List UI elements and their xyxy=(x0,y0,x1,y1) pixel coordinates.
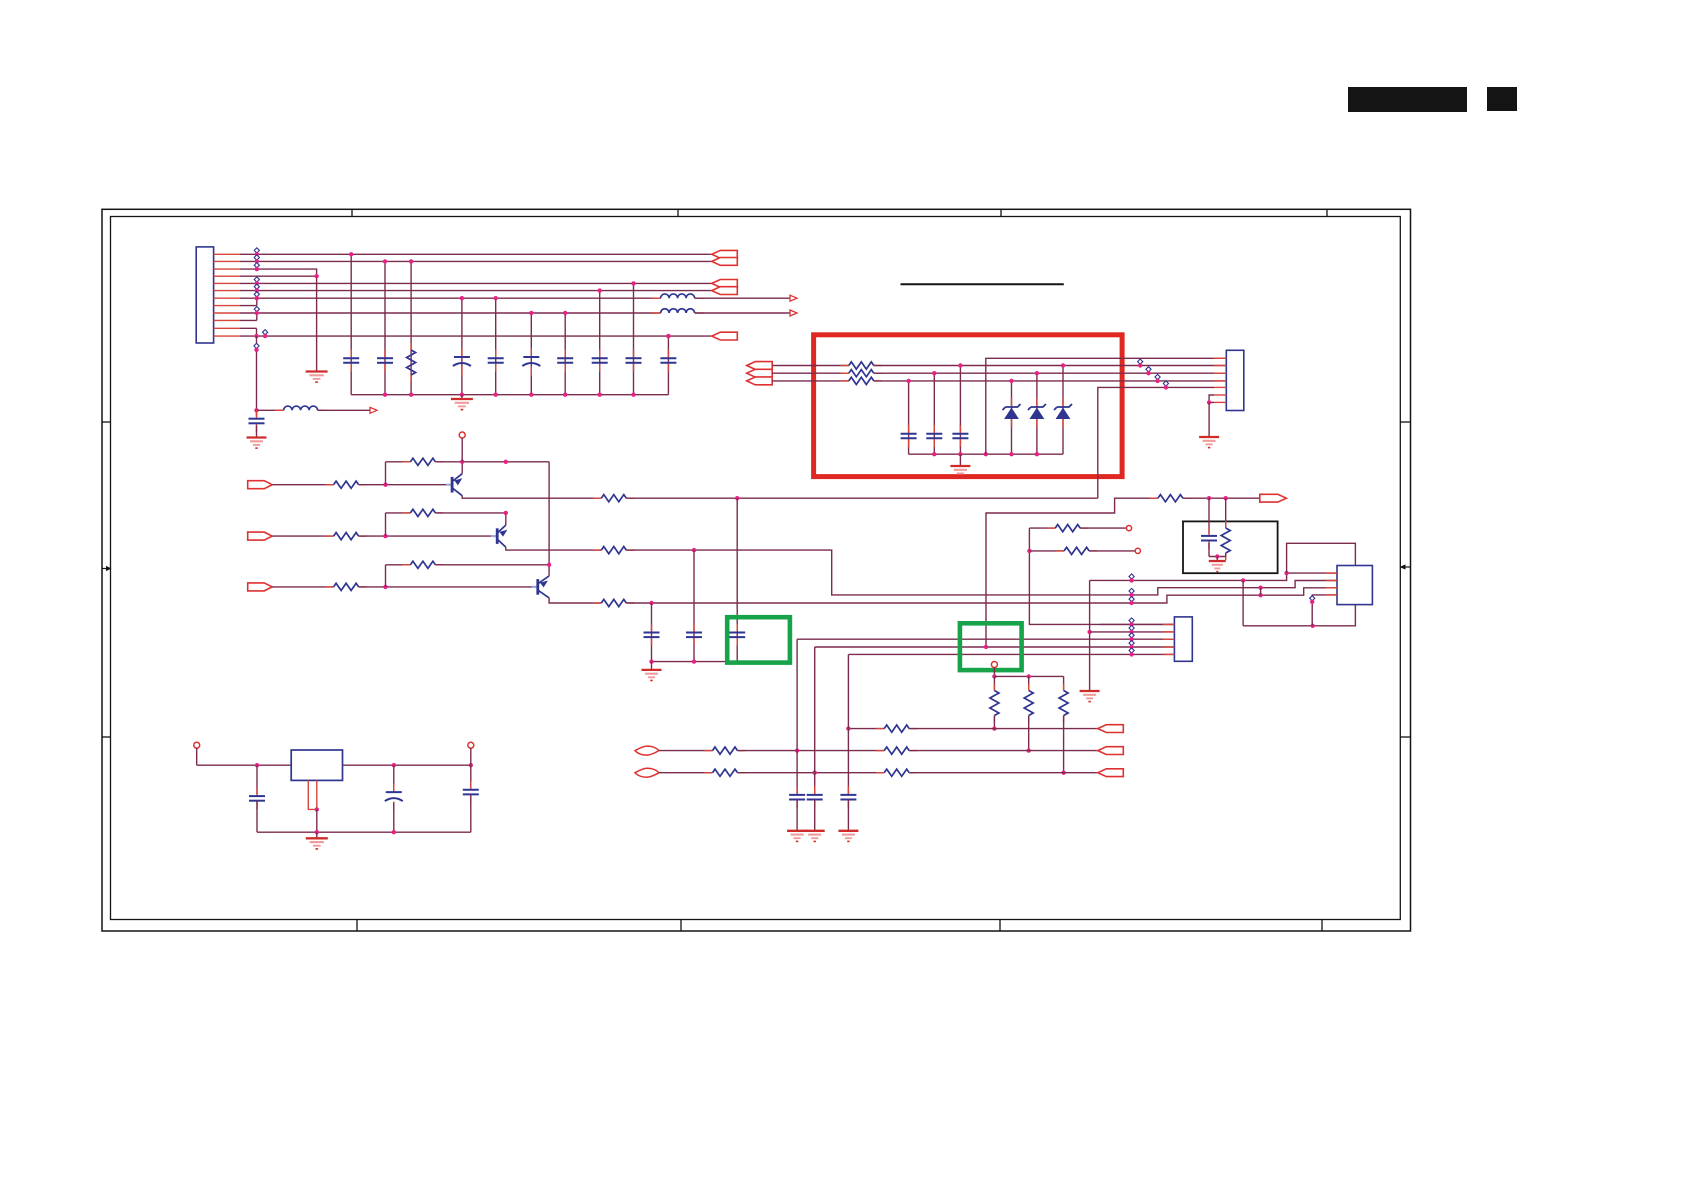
wire feedback riser Q2 xyxy=(385,513,387,536)
node IN2 riser tap xyxy=(813,771,817,775)
net glyph J2 row1 xyxy=(1138,359,1143,364)
wire red box row2 to connector J2 xyxy=(874,372,1227,374)
wire pin8 to L6 vertical xyxy=(256,298,258,305)
node filter junction xyxy=(254,408,258,412)
node snubber bus 1 xyxy=(649,659,653,663)
wire drop for C7 xyxy=(599,291,601,395)
connector J2 pin 2 stub xyxy=(1214,365,1226,367)
ground GND7 in black box xyxy=(1209,560,1226,562)
node red box bus junction xyxy=(1035,452,1039,456)
connector J1 pin 9 stub xyxy=(214,312,240,314)
wire net L8 from J1 pin12 to flag xyxy=(240,335,712,337)
capacitor C5 (polarized) xyxy=(530,349,532,358)
wire J3 pin5 line xyxy=(848,653,1174,655)
ground GND9 xyxy=(787,830,807,832)
wire flag G into red box xyxy=(772,372,849,374)
node R1 top junction xyxy=(409,259,413,263)
capacitor C12 xyxy=(693,624,695,633)
net glyph J2 row2 xyxy=(1146,367,1151,372)
resistor R11 xyxy=(841,365,849,367)
input flag F xyxy=(747,362,773,370)
capacitor C22 (polarized) xyxy=(393,784,395,793)
wire Q3 output line xyxy=(626,588,1337,603)
connector J2 pin 7 stub xyxy=(1214,401,1226,403)
node Q3 out tap xyxy=(649,601,653,605)
node VOUT junction xyxy=(469,763,473,767)
wire capacitor bus (top section) xyxy=(351,394,668,396)
small arrow filter out xyxy=(370,407,377,413)
wire drop R15 xyxy=(1225,498,1227,528)
border zone tick right 1 xyxy=(1401,421,1411,423)
IC U2 pin stub xyxy=(1326,580,1337,582)
wire RC ground stem xyxy=(1216,557,1218,562)
resistor R20 xyxy=(1063,684,1065,691)
node snubber bus 2 xyxy=(692,659,696,663)
capacitor C17 xyxy=(1208,527,1210,536)
connector J3 body xyxy=(1174,617,1192,661)
connector J1 pin 11 stub xyxy=(214,327,240,329)
node pin3/pin4 junction xyxy=(314,274,318,278)
net name node glyph row 269.1 xyxy=(254,263,259,268)
wire red box cap bus xyxy=(909,453,1063,455)
wire drop for C2 xyxy=(384,261,386,394)
capacitor C21 xyxy=(256,787,258,796)
node bus junction xyxy=(383,393,387,397)
connector J2 body xyxy=(1226,350,1244,410)
node R18 bottom xyxy=(992,726,996,730)
off-page flag J xyxy=(1098,725,1124,733)
connector J1 pin 10 stub xyxy=(214,319,240,321)
resistor R13 xyxy=(841,380,849,382)
wire snubber bus xyxy=(652,661,738,663)
wire AU2 to flag xyxy=(909,750,1098,752)
wire top lead R20 xyxy=(1063,676,1065,690)
wire net L1 from J1 pin1 to flag xyxy=(240,253,712,255)
wire Rb lead xyxy=(1029,550,1064,552)
title tab black square small xyxy=(1487,87,1517,111)
resistor R3 xyxy=(326,535,334,537)
wire Ra lead xyxy=(1029,527,1055,529)
node red box bus junction xyxy=(932,452,936,456)
resistor R1 xyxy=(410,343,412,350)
wire C23 to rail xyxy=(470,794,472,832)
resistor R14 xyxy=(1150,497,1158,499)
wire feedback to emitter rail Q3 xyxy=(435,564,549,566)
border zone tick top 3 xyxy=(1000,209,1002,216)
wire R15 bottom xyxy=(1225,553,1227,557)
node C1 top junction xyxy=(349,252,353,256)
wire Q1 output line xyxy=(626,497,1098,499)
node input cap tap xyxy=(255,763,259,767)
resistor R22 xyxy=(705,750,713,752)
node rail 2 xyxy=(392,830,396,834)
wire line AU1 (row 728.6) xyxy=(848,728,884,730)
wire drop for C8 xyxy=(633,283,635,394)
wire R16 to test point xyxy=(1080,527,1126,529)
net glyph J3 pin2 xyxy=(1129,625,1134,630)
wire input to resistor R3 xyxy=(272,535,333,537)
node bus junction xyxy=(598,393,602,397)
ground GND5 red box xyxy=(959,454,961,466)
wire L6 inductor to arrow xyxy=(695,297,790,299)
wire drop D1 xyxy=(1011,381,1013,454)
node C5 top junction xyxy=(529,311,533,315)
node C6 top junction xyxy=(563,311,567,315)
wire VIN to regulator xyxy=(197,764,292,766)
wire feedback riser Q3 xyxy=(385,565,387,587)
node SDA drop junction xyxy=(1241,578,1245,582)
resistor R21 xyxy=(876,728,884,730)
green highlight box 1 xyxy=(727,617,790,662)
input flag G xyxy=(747,369,773,377)
wire collector drop Q1 xyxy=(462,496,601,499)
wire net L5 from J1 pin6 to flag xyxy=(240,290,712,292)
capacitor C8 xyxy=(633,350,635,359)
wire drop for R1 xyxy=(410,261,412,394)
border zone tick left 1 xyxy=(102,421,111,423)
terminal circle VOUT xyxy=(468,742,474,748)
wire R17 to test point xyxy=(1089,550,1135,552)
net glyph line3 xyxy=(1129,597,1134,602)
wire feedback top Q1 xyxy=(386,461,411,463)
wire collector drop Q3 xyxy=(549,598,601,603)
connector J1 pin 1 stub xyxy=(214,253,240,255)
connector J2 pin 5 stub xyxy=(1214,386,1226,388)
connector J3 pin 5 stub xyxy=(1163,653,1174,655)
IC U2 body xyxy=(1337,566,1372,605)
border zone tick left 2 xyxy=(102,736,111,738)
zener diode D2 xyxy=(1036,398,1038,407)
wire pin11 to L8 vertical xyxy=(256,328,258,336)
wire drop for C6 xyxy=(564,313,566,395)
wire collector drop Q2 xyxy=(506,547,602,550)
wire drop C13 xyxy=(736,498,738,661)
off-page flag B (L2) xyxy=(712,258,738,266)
red highlight box xyxy=(814,335,1123,477)
wire riser 3 (x=848) xyxy=(847,654,849,794)
wire flag F into red box xyxy=(772,365,849,367)
off-page flag L xyxy=(1098,769,1124,777)
wire feedback riser Q1 xyxy=(385,462,387,485)
capacitor C10 xyxy=(256,410,258,416)
wire AU3 to flag xyxy=(909,772,1098,774)
wire IC top loop xyxy=(1287,543,1356,573)
test point circle TP2 xyxy=(1135,548,1140,553)
wire net L6 from J1 pin7 to inductor xyxy=(240,297,661,299)
resistor R23 xyxy=(876,750,884,752)
resistor R9 (Q2 out) xyxy=(593,549,601,551)
node L8 tap for C9 xyxy=(666,334,670,338)
ground GND12 regulator xyxy=(316,832,318,838)
border zone tick top 1 xyxy=(351,209,353,216)
input flag for Q1 xyxy=(248,481,273,489)
inductor L1 on net L6 xyxy=(652,297,661,299)
node divider bus 2 xyxy=(1027,674,1031,678)
wire resistor R3 to base of Q2 xyxy=(359,535,492,537)
ground GND8 below riser xyxy=(1080,690,1100,692)
node Rb junction xyxy=(1027,549,1031,553)
zener diode D3 xyxy=(1062,398,1064,407)
node C4 top junction xyxy=(494,296,498,300)
node RC ground junction xyxy=(1215,554,1219,558)
ground GND3 below C10 xyxy=(247,436,267,438)
wire emitter rail across xyxy=(462,461,549,463)
wire C20 to ground xyxy=(847,800,849,831)
wire J2 pin7 to ground xyxy=(1209,401,1214,403)
wire IC bottom return xyxy=(1243,605,1355,626)
wire AU1 to flag xyxy=(909,728,1098,730)
net glyph J3 pin1 xyxy=(1129,618,1134,623)
wire J1 pin10 tie-up xyxy=(240,319,257,321)
capacitor C2 xyxy=(384,350,386,359)
heading underline xyxy=(901,283,1064,285)
node bus junction xyxy=(460,393,464,397)
net name node glyph row 261.4 xyxy=(254,255,259,260)
node bus junction xyxy=(529,393,533,397)
node R14 tap R15 xyxy=(1224,496,1228,500)
node AU1 origin xyxy=(846,726,850,730)
node D3 top xyxy=(1061,363,1065,367)
wire IC pin4 drop xyxy=(1312,595,1337,626)
IC U2 pin stub xyxy=(1326,587,1337,589)
node C2 top junction xyxy=(383,259,387,263)
resistor R4 xyxy=(326,586,334,588)
wire C18 to ground xyxy=(796,800,798,831)
node red box bus junction xyxy=(958,452,962,456)
wire terminal to emitter rail xyxy=(461,438,463,462)
wire J3 pin3 line xyxy=(797,638,1174,640)
wire feedback top Q2 xyxy=(386,512,411,514)
wire emitter riser Q1 xyxy=(461,462,463,474)
node bus junction xyxy=(563,393,567,397)
node C3 top junction xyxy=(460,296,464,300)
regulator U1 body xyxy=(291,750,342,780)
node emitter rail Q1 xyxy=(460,460,464,464)
connector J2 pin 6 stub xyxy=(1214,394,1226,396)
wire bottom lead R20 xyxy=(1063,716,1065,773)
node C15 top xyxy=(932,371,936,375)
wire bottom lead R19 xyxy=(1028,716,1030,751)
wire net L2 from J1 pin2 to flag xyxy=(240,260,712,262)
node R19 bottom xyxy=(1027,748,1031,752)
node emitter rail Q2 xyxy=(504,460,508,464)
title tab black bar large xyxy=(1348,87,1467,112)
border zone tick right 2 xyxy=(1401,736,1411,738)
connector J1 pin 2 stub xyxy=(214,260,240,262)
capacitor C19 xyxy=(814,786,816,795)
wire drop C11 xyxy=(651,603,653,662)
input flag for Q3 xyxy=(248,583,273,591)
node C14 top xyxy=(906,379,910,383)
connector J1 pin 4 stub xyxy=(214,275,240,277)
wire C21 to rail xyxy=(256,801,258,833)
connector J2 pin 4 stub xyxy=(1214,380,1226,382)
wire net L7 from J1 pin9 to inductor xyxy=(240,312,661,314)
ground GND10 xyxy=(805,830,825,832)
wire J3 pin1 line xyxy=(1100,623,1174,625)
node Q1 out tap xyxy=(735,496,739,500)
capacitor C1 xyxy=(350,350,352,359)
inductor L3 xyxy=(275,409,284,411)
resistor R8 (Q1 out) xyxy=(593,497,601,499)
wire riser Ra/Rb xyxy=(1029,528,1174,624)
border centre arrow left xyxy=(102,568,109,570)
transistor Q1 xyxy=(446,484,452,486)
net glyph J3 pin5 xyxy=(1129,648,1134,653)
ground GND1 below pin4 xyxy=(306,370,328,372)
wire C17 bottom xyxy=(1208,543,1210,557)
IC U2 pin stub xyxy=(1326,594,1337,596)
wire riser 2 (x=815) xyxy=(814,647,816,795)
off-page flag I (right) xyxy=(1260,494,1287,502)
wire feedback to emitter rail Q1 xyxy=(435,461,462,463)
off-page flag C (L4) xyxy=(712,280,738,288)
wire VIN down xyxy=(196,748,198,765)
off-page flag E (L8) xyxy=(712,332,738,340)
net glyph SDA xyxy=(1129,574,1134,579)
resistor R5 xyxy=(402,461,410,463)
wire drop for C4 xyxy=(495,298,497,395)
connector J3 pin 1 stub xyxy=(1163,623,1174,625)
wire IN2 line xyxy=(738,772,885,774)
node C9 top junction xyxy=(666,334,670,338)
wire drop D3 xyxy=(1062,366,1064,455)
wire emitter rail drop to Q3 xyxy=(548,462,550,565)
wire feedback to emitter rail Q2 xyxy=(435,512,505,514)
terminal circle VIN xyxy=(194,742,200,748)
node divider bus 1 xyxy=(992,674,996,678)
wire red box row3 to connector J2 xyxy=(874,380,1227,382)
capacitor C6 xyxy=(564,350,566,359)
node output cap tap xyxy=(392,763,396,767)
wire resistor R2 to base of Q1 xyxy=(359,484,447,486)
connector J3 pin 2 stub xyxy=(1163,631,1174,633)
wire drop for C3 xyxy=(461,298,463,395)
connector J1 pin 7 stub xyxy=(214,297,240,299)
net name node glyph below J1 xyxy=(254,343,259,348)
connector J3 pin 4 stub xyxy=(1163,646,1174,648)
wire C19 to ground xyxy=(814,800,816,831)
wire top lead R19 xyxy=(1028,676,1030,690)
node bus junction xyxy=(494,393,498,397)
node base junction Q3 xyxy=(383,585,387,589)
net name node glyph row 298.2 xyxy=(254,292,259,297)
wire ground drop from pin4 node xyxy=(316,276,318,371)
sheet inner border frame xyxy=(111,217,1401,920)
wire input to resistor R4 xyxy=(272,586,333,588)
wire regulator ground drop xyxy=(316,809,318,832)
net name node glyph row 313.0 xyxy=(254,307,259,312)
node IN1 riser tap xyxy=(795,748,799,752)
node Q2 out tap xyxy=(692,548,696,552)
capacitor C16 xyxy=(959,425,961,434)
net name node glyph row 254.3 xyxy=(254,248,259,253)
ground GND11 xyxy=(838,830,858,832)
off-page flag K xyxy=(1098,747,1124,755)
border zone tick top 2 xyxy=(677,209,679,216)
wire Q2 output line xyxy=(626,550,1337,595)
wire riser 1 (x=797) xyxy=(796,639,798,795)
resistor R2 xyxy=(326,484,334,486)
capacitor C14 xyxy=(908,425,910,434)
node red box bus junction xyxy=(984,452,988,456)
wire drop C16 xyxy=(959,366,961,455)
wire J1 pin3 jog xyxy=(240,269,317,276)
resistor R24 xyxy=(705,772,713,774)
wire drop for C9 xyxy=(667,336,669,395)
node R20 bottom xyxy=(1061,771,1065,775)
terminal circle above Q1 xyxy=(459,432,465,438)
wire IN1 line xyxy=(738,750,885,752)
node IC bottom tap xyxy=(1311,624,1315,628)
capacitor C23 xyxy=(470,781,472,790)
wire C22 to rail xyxy=(393,803,395,833)
resistor R7 xyxy=(402,564,410,566)
regulator ground pins xyxy=(308,780,317,809)
net glyph IC pin4 xyxy=(1310,596,1315,601)
node D1 top xyxy=(1009,379,1013,383)
node green box riser landing xyxy=(984,645,988,649)
wire regulator output xyxy=(343,764,471,766)
border zone tick bottom 4 xyxy=(1321,920,1323,931)
net glyph J2 row4 xyxy=(1163,381,1168,386)
wire drop C14 xyxy=(908,381,910,454)
capacitor C9 xyxy=(667,350,669,359)
net name node glyph L8 xyxy=(263,330,268,335)
wire regulator ground rail xyxy=(257,831,471,833)
off-page flag D (L5) xyxy=(712,287,738,295)
wire flag H into red box xyxy=(772,380,849,382)
wire L8 node down to filter xyxy=(256,336,258,410)
wire red box row1 to connector J2 xyxy=(874,365,1227,367)
net name node glyph row 283.4 xyxy=(254,277,259,282)
wire terminal to divider bus xyxy=(993,668,995,677)
wire drop for C1 xyxy=(350,254,352,394)
net glyph J2 row3 xyxy=(1155,374,1160,379)
node L8 filter junction xyxy=(254,334,258,338)
node J2 ground junction xyxy=(1207,400,1211,404)
node D2 top xyxy=(1035,371,1039,375)
wire R14 to flag xyxy=(1183,497,1260,499)
node base junction Q2 xyxy=(383,534,387,538)
transistor Q3 xyxy=(532,586,538,588)
wire drop D2 xyxy=(1036,373,1038,454)
small arrow L7 xyxy=(790,310,797,316)
node staircase tie lower xyxy=(1258,593,1262,597)
wire bottom lead R18 xyxy=(993,716,995,729)
node feedback/emitter Q2 xyxy=(504,511,508,515)
ground GND2 on capacitor bus xyxy=(461,395,463,399)
node bus junction xyxy=(631,393,635,397)
wire emitter riser Q2 xyxy=(505,513,507,525)
sheet outer border frame xyxy=(102,209,1411,931)
capacitor C3 (polarized) xyxy=(461,349,463,358)
lens connector IN1 xyxy=(635,746,659,755)
transistor Q2 xyxy=(491,535,497,537)
capacitor C15 xyxy=(933,425,935,434)
wire filter to inductor xyxy=(257,409,284,411)
capacitor C7 xyxy=(599,350,601,359)
wire IN2 to resistor xyxy=(659,772,713,774)
wire RC bottom tie xyxy=(1209,556,1226,558)
connector J2 pin 3 stub xyxy=(1214,372,1226,374)
inductor L2 on net L7 xyxy=(652,312,661,314)
off-page flag A (L1) xyxy=(712,250,738,258)
wire divider bus xyxy=(994,675,1063,677)
wire staircase tie xyxy=(1260,588,1262,596)
wire ground riser right xyxy=(1089,580,1091,691)
connector J1 pin 6 stub xyxy=(214,290,240,292)
